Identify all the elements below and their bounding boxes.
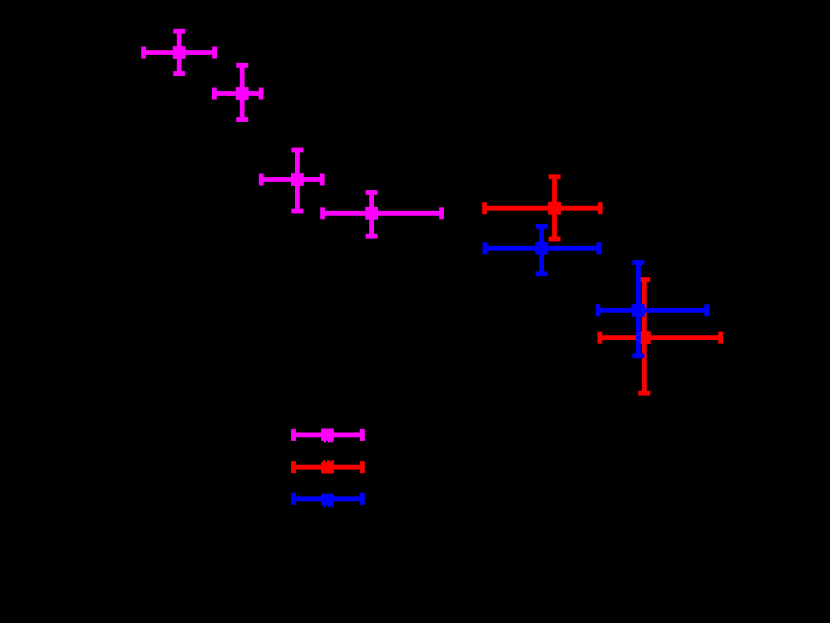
legend entry red	[294, 460, 363, 473]
data point R1 (red errorbar)	[485, 177, 601, 239]
legend entry blue	[294, 493, 363, 508]
data point B2 (blue errorbar)	[598, 263, 707, 356]
data point M3 (magenta errorbar)	[261, 150, 322, 211]
data point B1 (blue errorbar)	[485, 226, 599, 273]
data point R2 (red errorbar)	[600, 280, 721, 394]
data point M2 (magenta errorbar)	[214, 65, 261, 119]
data point M4 (magenta errorbar)	[323, 193, 442, 237]
legend entry magenta	[294, 429, 363, 443]
data point M1 (magenta errorbar)	[144, 31, 215, 73]
